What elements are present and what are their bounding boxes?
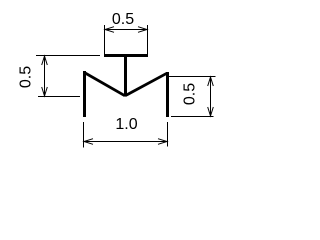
bottom dimension extension line left: [83, 122, 85, 148]
svg-text:0.5: 0.5: [112, 11, 134, 28]
left dimension extension line top: [36, 55, 100, 57]
top dimension line 0.5: [105, 29, 147, 31]
right dimension arrowhead up: [208, 77, 214, 86]
groove left diagonal: [85, 73, 126, 96]
tooth stem: [124, 57, 127, 96]
right dimension extension line top: [169, 76, 216, 78]
svg-text:0.5: 0.5: [18, 66, 35, 88]
svg-text:1.0: 1.0: [115, 116, 137, 133]
tooth crest flat (top bar): [104, 54, 148, 57]
groove right flank vertical: [166, 72, 169, 117]
bottom dimension line 1.0: [84, 141, 167, 143]
left dimension line 0.5: [44, 56, 46, 96]
bottom dimension arrowhead left: [84, 139, 93, 145]
left dimension extension line bottom: [38, 96, 80, 98]
right dimension arrowhead down: [208, 107, 214, 116]
top dimension arrowhead right: [138, 27, 147, 33]
right dimension extension line bottom: [171, 116, 214, 118]
top dimension extension line left: [104, 25, 106, 54]
bottom dimension arrowhead right: [158, 139, 167, 145]
left dimension arrowhead down: [42, 87, 48, 96]
groove right diagonal: [125, 73, 167, 96]
bottom dimension extension line right: [167, 122, 169, 147]
groove left flank vertical: [83, 71, 86, 117]
right dimension line 0.5: [210, 77, 212, 116]
top dimension extension line right: [147, 25, 149, 54]
svg-text:0.5: 0.5: [182, 83, 199, 105]
top dimension arrowhead left: [105, 27, 114, 33]
left dimension arrowhead up: [42, 56, 48, 65]
